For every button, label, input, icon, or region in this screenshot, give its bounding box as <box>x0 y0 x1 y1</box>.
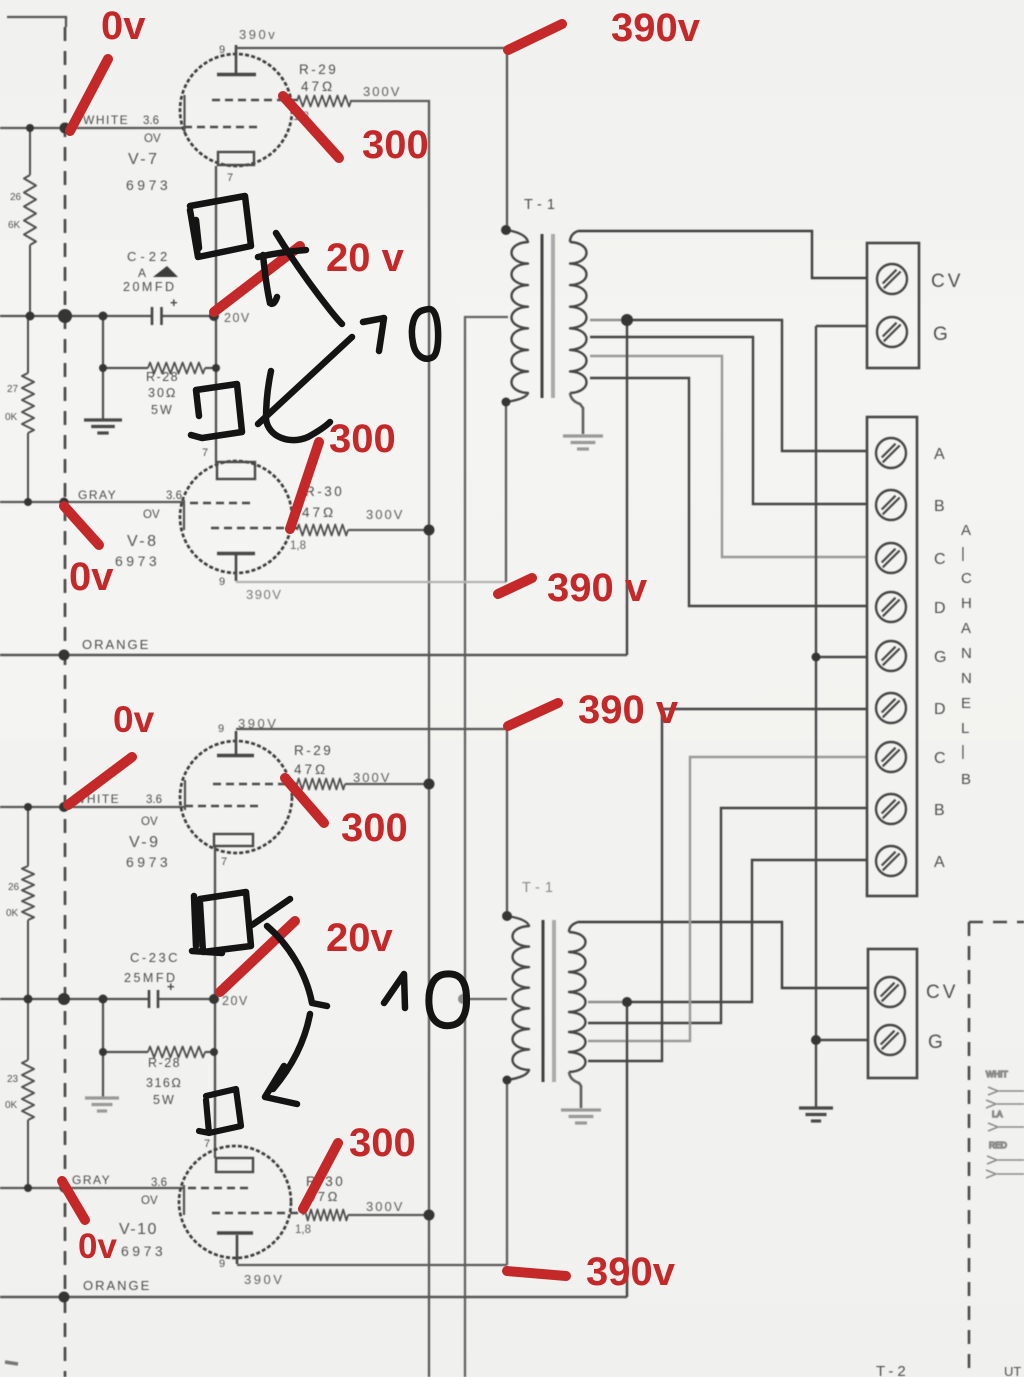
svg-text:C: C <box>934 750 946 767</box>
wire to ground lower-left <box>102 999 104 1097</box>
wire WHITE row V-7 <box>0 127 184 129</box>
wire 20V row upper <box>0 315 152 317</box>
wire V-8 plate to 390v corner <box>236 581 506 583</box>
svg-text:A: A <box>138 266 146 280</box>
svg-text:|: | <box>961 545 965 562</box>
wire ORANGE row upper <box>0 654 627 656</box>
connector right edge <box>986 1069 1024 1178</box>
svg-text:25MFD: 25MFD <box>124 971 177 985</box>
screw G 656 <box>876 641 906 671</box>
svg-text:1,8: 1,8 <box>295 1224 311 1236</box>
wire V-7 plate to 390v rail <box>236 48 507 230</box>
svg-text:3.6: 3.6 <box>166 490 182 502</box>
svg-text:390V: 390V <box>246 587 282 602</box>
svg-text:R-29: R-29 <box>294 743 333 758</box>
wire 20V row lower <box>0 998 149 1000</box>
wire tap C lower <box>588 757 867 1041</box>
marker 0 lower <box>429 974 467 1026</box>
svg-text:300V: 300V <box>363 84 401 99</box>
screw G lower <box>875 1025 905 1055</box>
svg-text:C-23C: C-23C <box>130 950 180 965</box>
svg-text:T-1: T-1 <box>524 197 560 213</box>
svg-text:300V: 300V <box>366 507 404 522</box>
svg-text:OV: OV <box>143 509 160 521</box>
ground T-1 lower secondary <box>561 1110 601 1123</box>
svg-text:G: G <box>928 1032 943 1053</box>
svg-text:30Ω: 30Ω <box>148 386 178 400</box>
wire G lower to screw <box>816 1039 868 1041</box>
svg-text:0v: 0v <box>69 555 114 599</box>
ground T-1 upper secondary <box>563 436 603 449</box>
capacitor C-23C <box>149 979 175 1008</box>
wire 300V bus vertical <box>350 101 429 1377</box>
wire WHITE row V-9 <box>0 806 185 808</box>
svg-text:A: A <box>961 620 971 637</box>
wire tap A lower <box>588 1001 627 1003</box>
svg-text:7: 7 <box>204 1138 210 1150</box>
svg-text:9: 9 <box>219 576 225 588</box>
screw A 861 <box>876 846 906 876</box>
marker square lower <box>192 892 251 953</box>
terminal strip CV G lower <box>868 949 917 1078</box>
wire V-9 cathode down <box>214 846 216 1158</box>
svg-text:ORANGE: ORANGE <box>83 1278 151 1293</box>
screw B 505 <box>876 490 906 520</box>
svg-text:V-9: V-9 <box>129 834 161 851</box>
wire center-tap to lower primary <box>465 998 507 1000</box>
screw G upper <box>877 317 907 347</box>
wire top-left corner <box>7 17 66 27</box>
resistor left R27 <box>27 316 29 373</box>
svg-text:G: G <box>934 649 946 666</box>
screw B 809 <box>876 794 906 824</box>
transformer T-1 upper primary winding <box>506 230 528 402</box>
junction nodes <box>26 124 34 132</box>
wire GRAY row V-8 <box>0 501 184 503</box>
svg-text:OV: OV <box>144 133 161 145</box>
svg-text:9: 9 <box>219 1258 225 1270</box>
screw CV upper <box>877 264 907 294</box>
wire tap A upper <box>590 319 627 321</box>
transformer T-1 lower core <box>542 920 545 1082</box>
ground upper-left <box>84 420 122 433</box>
resistor R-28 lower <box>103 1051 148 1053</box>
svg-text:3.6: 3.6 <box>151 1177 167 1189</box>
svg-text:26: 26 <box>10 192 22 203</box>
svg-text:WHITE: WHITE <box>83 113 129 127</box>
wire center-tap bus vertical <box>465 317 508 1377</box>
transformer T-1 upper core <box>541 234 544 398</box>
svg-text:5W: 5W <box>153 1093 176 1107</box>
svg-text:G: G <box>933 324 948 345</box>
svg-text:300: 300 <box>341 806 408 850</box>
svg-text:D: D <box>934 701 946 718</box>
svg-text:T-1: T-1 <box>522 880 558 896</box>
svg-text:300: 300 <box>329 417 396 461</box>
wire G line vertical <box>815 326 817 1108</box>
wire tap CV upper <box>578 231 867 278</box>
svg-text:CV: CV <box>926 982 958 1003</box>
svg-text:27: 27 <box>7 384 19 395</box>
svg-text:390v: 390v <box>239 27 277 42</box>
resistor R-30 upper <box>297 525 348 536</box>
svg-text:20V: 20V <box>222 994 249 1008</box>
dashed boundary line right <box>969 921 1024 924</box>
svg-text:OV: OV <box>141 816 158 828</box>
resistor R-29 upper <box>297 96 351 107</box>
svg-text:N: N <box>961 645 972 662</box>
svg-text:V-8: V-8 <box>127 533 159 550</box>
dashed boundary line left <box>64 27 67 1377</box>
svg-text:N: N <box>961 670 972 687</box>
svg-text:R-29: R-29 <box>299 62 338 77</box>
screw D 708 <box>876 693 906 723</box>
svg-text:RED: RED <box>989 1140 1007 1150</box>
svg-text:20V: 20V <box>224 311 251 325</box>
tube V-10 <box>179 1146 303 1264</box>
svg-text:R-30: R-30 <box>305 484 344 499</box>
svg-text:5W: 5W <box>151 403 174 417</box>
screw C 558 <box>876 543 906 573</box>
svg-text:V-10: V-10 <box>119 1221 158 1238</box>
svg-text:C-22: C-22 <box>127 249 171 264</box>
wire tap B upper <box>590 337 867 504</box>
marker 1 lower <box>384 974 405 1008</box>
wire GRAY row V-10 <box>0 1187 184 1189</box>
marker square mid <box>191 384 242 438</box>
svg-text:390 v: 390 v <box>578 688 679 732</box>
svg-text:B: B <box>961 771 971 788</box>
svg-text:300V: 300V <box>353 770 391 785</box>
svg-text:R-28: R-28 <box>146 370 179 384</box>
svg-text:300V: 300V <box>366 1199 404 1214</box>
marker hi character <box>266 371 330 440</box>
svg-text:B: B <box>934 498 945 515</box>
svg-text:6K: 6K <box>8 220 21 231</box>
svg-text:390 v: 390 v <box>547 566 648 610</box>
svg-text:47Ω: 47Ω <box>302 505 336 520</box>
svg-text:9: 9 <box>219 44 225 56</box>
svg-text:1,8: 1,8 <box>290 540 306 552</box>
svg-text:3.6: 3.6 <box>143 115 159 127</box>
screw D 607 <box>876 592 906 622</box>
svg-text:0v: 0v <box>78 1227 117 1266</box>
svg-text:7: 7 <box>202 447 208 459</box>
wire node to ORANGE <box>626 320 628 655</box>
wire R-30 lower to 300V bus <box>348 1214 429 1216</box>
screw CV lower <box>875 977 905 1007</box>
marker check lower <box>252 899 290 925</box>
svg-text:26: 26 <box>8 882 20 893</box>
svg-text:23: 23 <box>7 1074 19 1085</box>
marker arrow <box>267 926 327 1089</box>
svg-text:20v: 20v <box>326 916 393 960</box>
svg-text:6973: 6973 <box>121 1243 166 1259</box>
svg-text:H: H <box>961 595 972 612</box>
svg-text:300: 300 <box>362 123 429 167</box>
marker square V-10 <box>199 1089 241 1133</box>
resistor left R23 bottom <box>27 999 29 1060</box>
svg-text:+: + <box>170 295 178 310</box>
svg-text:GRAY: GRAY <box>78 488 117 502</box>
svg-text:T-2: T-2 <box>876 1363 910 1377</box>
svg-text:0K: 0K <box>5 412 18 423</box>
transformer T-1 upper secondary winding <box>570 231 578 242</box>
tube V-8 <box>180 461 300 581</box>
resistor R-30 lower <box>303 1210 348 1221</box>
svg-text:E: E <box>961 695 971 712</box>
svg-text:390V: 390V <box>244 1272 284 1287</box>
svg-text:CV: CV <box>931 271 963 292</box>
svg-text:3.6: 3.6 <box>146 794 162 806</box>
screw A 453 <box>876 438 906 468</box>
svg-text:47Ω: 47Ω <box>294 762 328 777</box>
tube V-9 <box>180 731 298 853</box>
wire R-30 to 300V bus <box>348 529 429 531</box>
resistor left R26 top <box>29 128 31 175</box>
svg-text:L: L <box>961 720 969 737</box>
marker dai character <box>258 250 306 257</box>
svg-text:0K: 0K <box>6 908 19 919</box>
ground lower-left <box>85 1098 119 1111</box>
svg-text:C: C <box>934 551 946 568</box>
wire tap C upper <box>590 356 867 557</box>
wire tap CV lower <box>578 922 868 988</box>
node center tap lower <box>458 994 468 1004</box>
svg-text:0v: 0v <box>113 699 155 740</box>
wire V-10 plate to lower primary <box>237 1264 507 1266</box>
ground G line <box>799 1108 833 1121</box>
capacitor C-22 <box>152 295 178 325</box>
wire to ground upper <box>102 316 104 419</box>
screw C 757 <box>876 742 906 772</box>
svg-text:390v: 390v <box>586 1250 676 1294</box>
resistor left R26 lower <box>27 807 29 866</box>
tube V-7 <box>180 45 300 166</box>
wire tap D lower <box>588 709 867 1061</box>
svg-text:6973: 6973 <box>126 177 171 193</box>
terminal strip CV G upper <box>867 243 919 368</box>
svg-text:A: A <box>934 854 945 871</box>
wire V-7 cathode down to 20V node <box>215 166 217 463</box>
svg-text:A: A <box>961 522 971 539</box>
resistor R-29 lower <box>297 779 345 790</box>
svg-text:9: 9 <box>218 723 224 735</box>
svg-text:|: | <box>961 743 965 760</box>
svg-text:C: C <box>961 570 972 587</box>
svg-text:20 v: 20 v <box>326 236 405 280</box>
svg-text:0K: 0K <box>5 1100 18 1111</box>
svg-text:A: A <box>934 446 945 463</box>
svg-text:20MFD: 20MFD <box>123 280 176 294</box>
svg-text:V-7: V-7 <box>128 151 160 168</box>
svg-text:D: D <box>934 600 946 617</box>
svg-text:UT: UT <box>1004 1364 1021 1377</box>
wire tap B lower <box>588 808 867 1023</box>
marker 7 upper <box>363 318 384 351</box>
svg-text:ORANGE: ORANGE <box>82 637 150 652</box>
wire tap D upper <box>590 378 867 606</box>
terminal strip main <box>867 417 917 896</box>
svg-text:300: 300 <box>349 1121 416 1165</box>
svg-text:0v: 0v <box>101 4 146 48</box>
svg-text:7: 7 <box>221 856 227 868</box>
wire V-9 plate to 390v rail lower <box>236 729 507 916</box>
svg-text:316Ω: 316Ω <box>146 1076 182 1090</box>
wire ORANGE row lower <box>0 1296 627 1298</box>
marker 0 upper <box>412 309 438 359</box>
svg-text:WHIT: WHIT <box>986 1069 1008 1079</box>
marker square upper <box>190 196 251 257</box>
svg-text:7: 7 <box>227 172 233 184</box>
svg-text:GRAY: GRAY <box>72 1173 111 1187</box>
wire R-29 lower to 300V bus <box>345 783 429 785</box>
mark bottom-left <box>5 1362 18 1364</box>
svg-text:R-28: R-28 <box>148 1056 181 1070</box>
svg-text:OV: OV <box>141 1195 158 1207</box>
svg-text:B: B <box>934 802 945 819</box>
resistor R-28 upper <box>103 367 148 369</box>
transformer T-1 lower secondary winding <box>569 922 578 932</box>
svg-text:LA: LA <box>992 1109 1003 1119</box>
transformer T-1 lower primary winding <box>507 916 529 1080</box>
wire lower node to ORANGE lower <box>626 1002 628 1297</box>
wire G upper to screw <box>816 656 867 658</box>
svg-text:390v: 390v <box>611 6 701 50</box>
svg-text:6973: 6973 <box>115 553 160 569</box>
svg-text:47Ω: 47Ω <box>301 79 335 94</box>
svg-text:6973: 6973 <box>126 854 171 870</box>
